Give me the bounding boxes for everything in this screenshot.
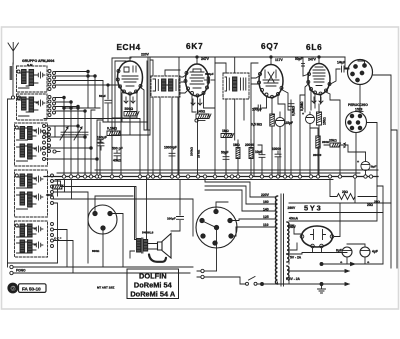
capacitor C17 electrolytic [357, 152, 377, 177]
wire mains tap lines [236, 197, 276, 227]
capacitor C11 [258, 145, 265, 177]
svg-text:MT ART 1/8Z: MT ART 1/8Z [97, 286, 115, 290]
transformer T4 6.3V winding [287, 266, 289, 278]
svg-text:DoReMi 54: DoReMi 54 [134, 281, 173, 290]
speaker LS1 [158, 234, 172, 259]
wire 6.3V arrows [262, 268, 349, 286]
wire right verticals [391, 130, 397, 268]
node D terminal [53, 150, 60, 153]
wire tuning common [64, 107, 100, 109]
svg-text:FONO: FONO [16, 269, 26, 273]
resistor R5 1M [221, 134, 234, 151]
wire speaker leads curved [149, 255, 166, 262]
wire socket2 to bus [356, 123, 377, 187]
svg-text:100μF: 100μF [97, 136, 107, 140]
svg-text:220V: 220V [141, 53, 150, 57]
capacitor C5 500pF [97, 122, 103, 177]
svg-text:0,5MΩ: 0,5MΩ [292, 106, 296, 116]
svg-text:500Ω: 500Ω [125, 107, 134, 111]
svg-text:1/4μF: 1/4μF [337, 61, 345, 65]
wire R1 to bus [130, 88, 150, 136]
svg-text:O C *: O C * [54, 237, 62, 241]
wire stair 1 to output transformer [54, 181, 137, 238]
cathode arrows Tf Tf ECH4 [124, 97, 135, 103]
tuner coil box L7/L8 (O.C.) [15, 221, 48, 257]
wire main ground bus [44, 176, 378, 178]
resistor R3 140ohm [196, 114, 211, 119]
capacitor C13 electrolytic 25uF [273, 112, 293, 177]
tube 6L6 envelope [308, 64, 330, 95]
wire switch row to C-var1 [56, 72, 96, 109]
svg-text:290V: 290V [288, 206, 297, 210]
wire ECH4 right frame [112, 57, 150, 135]
capacitor C10 [223, 154, 229, 177]
resistor R12 200ohm [310, 128, 330, 177]
wire HV to 5Y3 [289, 177, 391, 250]
svg-text:8μF: 8μF [371, 165, 377, 169]
svg-text:8μF: 8μF [336, 249, 342, 253]
svg-text:200kΩ: 200kΩ [190, 146, 194, 156]
wire HT top line [131, 56, 345, 58]
cathode arrows Tf Tf 6K7 [191, 99, 202, 105]
svg-text:545/6L6: 545/6L6 [142, 231, 154, 235]
node junctions tuning top [63, 70, 97, 112]
label PERUCCHIO 1523 [348, 103, 368, 112]
socket field coil [346, 112, 367, 133]
wire 5V line [289, 248, 347, 264]
node antenna terminal [11, 96, 20, 99]
node FONO terminals [10, 265, 26, 274]
svg-text:160: 160 [263, 200, 269, 204]
svg-text:0,1MΩ: 0,1MΩ [107, 127, 118, 131]
resistor R1 500 ohm [124, 112, 139, 117]
svg-text:300pF: 300pF [205, 72, 214, 76]
capacitor C8 [204, 77, 215, 83]
svg-text:220V: 220V [261, 193, 270, 197]
band switch contacts S1e [51, 223, 54, 248]
svg-text:6Q7: 6Q7 [261, 42, 279, 51]
resistor R7 [249, 140, 253, 177]
band switch contacts S1d [51, 174, 54, 205]
svg-text:0,2MΩ: 0,2MΩ [300, 101, 304, 111]
wire 6L6 plate to cap [326, 69, 340, 177]
capacitor C7 500pF [114, 151, 120, 162]
svg-text:247V: 247V [201, 57, 210, 61]
capacitor C23 50pF antenna [99, 84, 111, 122]
svg-text:1523: 1523 [355, 108, 363, 112]
svg-text:247V: 247V [308, 58, 317, 62]
wire box3 contacts feed [46, 125, 99, 161]
resistor R2 0.1M [107, 131, 120, 136]
tube ECH4 envelope [118, 61, 143, 94]
node junction mains [261, 283, 264, 286]
svg-text:20000: 20000 [245, 143, 254, 147]
wire T2 connections [215, 57, 244, 177]
wire cap commons [322, 262, 384, 265]
svg-text:10000pF: 10000pF [164, 146, 177, 150]
IF transformer T1 [151, 76, 180, 97]
svg-text:600Ω: 600Ω [92, 249, 100, 253]
svg-text:117V: 117V [275, 58, 283, 62]
svg-text:5V - 2A: 5V - 2A [290, 256, 302, 260]
wire right frame low [377, 186, 383, 264]
label discesa vertical [10, 66, 13, 80]
capacitor C21 10000pF [164, 146, 177, 177]
capacitor C12 [275, 151, 281, 177]
svg-text:40kΩ: 40kΩ [113, 159, 122, 163]
capacitor C20 4uF [347, 244, 378, 265]
variable capacitor C1 [60, 108, 68, 177]
svg-text:20Ω: 20Ω [342, 190, 349, 194]
wire ECH4 left frame [112, 58, 131, 177]
IF transformer T2 [223, 73, 249, 99]
wire switch rows [56, 81, 122, 123]
transformer T4 5V winding [287, 254, 289, 262]
svg-text:+: + [273, 113, 275, 117]
svg-text:ECH4: ECH4 [117, 43, 141, 52]
node mains terminals [197, 269, 204, 278]
tube 6Q7 envelope [259, 65, 283, 98]
svg-text:150Ω: 150Ω [323, 117, 327, 125]
wire left edge down to FONO bus [8, 99, 12, 267]
svg-text:25μF: 25μF [286, 121, 293, 125]
svg-text:PERUCCHIO: PERUCCHIO [348, 103, 368, 107]
resistor R4 vertical 0.5M [270, 112, 275, 177]
svg-text:110: 110 [263, 223, 269, 227]
wire R3 to bus [192, 112, 198, 177]
capacitor C15 electrolytic 10uF [302, 112, 315, 177]
wire mid verticals [44, 57, 148, 177]
wire ECH4 pins to frame [103, 93, 137, 122]
cathode arrows Tf Tf 6L6 [312, 97, 323, 103]
wire ground bus 2 [55, 179, 333, 181]
capacitor C9 100uF [254, 105, 267, 177]
svg-text:540V: 540V [288, 225, 297, 229]
svg-text:140Ω: 140Ω [197, 110, 206, 114]
socket speaker plug [348, 60, 373, 85]
wire mains upper [204, 270, 216, 272]
band switch contacts S1b [48, 96, 56, 117]
tube 5Y3 envelope [302, 226, 333, 247]
wire tap feeds [205, 180, 250, 212]
wire box5 to fono bus [54, 230, 74, 274]
svg-text:100μF: 100μF [167, 217, 176, 221]
node junction 6.3 [320, 263, 323, 286]
svg-text:5Y3: 5Y3 [304, 204, 323, 213]
capacitor C16 1/4uF [336, 66, 349, 72]
socket voltage selector [196, 207, 237, 248]
resistor R8 cathode 6L6 [317, 104, 322, 177]
wire socket connections [345, 57, 391, 268]
band switch contacts S1a [48, 70, 56, 91]
svg-text:1MΩ: 1MΩ [233, 143, 240, 147]
svg-text:50pF: 50pF [295, 57, 302, 61]
logo badge [8, 283, 46, 293]
wire T1 connections [150, 60, 180, 177]
wire stair 2 long left vertical [54, 180, 89, 264]
resistor R11 oscillator 400ohm [46, 180, 63, 198]
svg-text:50pF: 50pF [99, 94, 106, 98]
tube 6K7 envelope [186, 64, 209, 96]
tuner coil box L1 (aerial) [17, 66, 48, 92]
capacitor C14 50pF [302, 57, 310, 76]
wire transformer to bus [130, 177, 158, 259]
capacitor C6 100uF [98, 140, 104, 150]
capacitor C18 100uF to speaker [167, 180, 184, 232]
node bus junctions [62, 175, 372, 178]
wire 6L6 cathode/grid [300, 84, 321, 177]
svg-text:6K7: 6K7 [186, 42, 203, 51]
svg-text:+: + [302, 112, 304, 116]
transformer T3 output [137, 238, 148, 253]
transformer T4 core [281, 194, 284, 286]
transformer T4 HV secondary [287, 222, 289, 254]
wire fono bus lines [8, 263, 194, 273]
wire AVC line [95, 169, 378, 171]
svg-text:125: 125 [263, 215, 269, 219]
wire AVC line 2 [57, 172, 360, 174]
padder capacitor C4 [82, 116, 88, 177]
capacitor C22 [288, 104, 294, 107]
tuner coil box L5/L6 (oscillator) [15, 170, 48, 217]
padder capacitor C2 [68, 112, 74, 177]
switch S2 mains [204, 277, 277, 286]
wire 6K7 frame [179, 57, 215, 177]
wire stair 3 to socket left [54, 180, 194, 237]
svg-text:FA 50-10: FA 50-10 [22, 286, 41, 291]
wire primary bottom [277, 283, 279, 285]
resistor R10 20ohm [330, 180, 381, 205]
svg-text:4μF: 4μF [372, 250, 378, 254]
wire vert to bus 2 [97, 120, 103, 177]
wire selector connections [217, 219, 240, 271]
wire 6Q7 frame [251, 63, 291, 177]
svg-text:DoReMi 54 A: DoReMi 54 A [130, 290, 176, 299]
svg-text:6L6: 6L6 [306, 43, 323, 52]
svg-text:20000: 20000 [313, 153, 322, 157]
transformer T4 power primary [276, 196, 278, 284]
label box DOLFIN [127, 269, 179, 299]
wire phono connections [95, 196, 133, 267]
svg-text:400Ω: 400Ω [46, 193, 54, 197]
svg-text:20kΩ: 20kΩ [329, 139, 337, 143]
svg-text:10μF: 10μF [255, 150, 262, 154]
socket phono 3-pin [88, 205, 117, 234]
ground chassis [318, 284, 326, 293]
antenna [8, 43, 18, 65]
svg-text:50pF: 50pF [221, 151, 228, 155]
svg-text:1MΩ: 1MΩ [222, 129, 229, 133]
svg-text:20Ω: 20Ω [367, 203, 374, 207]
band switch contacts S1c [43, 125, 51, 161]
tuner coil box L2 [17, 94, 48, 120]
antenna lead-in wire [12, 63, 14, 96]
wire stair 4 [54, 203, 58, 263]
label GRUPPO AFM 3004 [22, 59, 54, 67]
svg-text:140: 140 [263, 208, 269, 212]
svg-text:+: + [357, 160, 359, 164]
svg-text:6,3V - 2A: 6,3V - 2A [286, 277, 301, 281]
svg-text:G: G [11, 286, 16, 293]
resistor R6 [236, 140, 240, 177]
capacitor C19 8uF [336, 247, 352, 265]
svg-text:40mA: 40mA [289, 217, 299, 221]
tuner coil box L3/L4 [15, 123, 48, 166]
variable capacitor C3 [74, 114, 82, 177]
wire vert to bus [91, 110, 95, 177]
node terminal D [195, 119, 205, 122]
resistor R9 20k [324, 139, 366, 153]
svg-text:0,5 MΩ: 0,5 MΩ [251, 123, 262, 127]
